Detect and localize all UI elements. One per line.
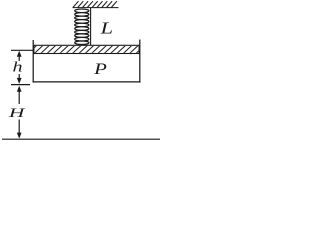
- svg-text:h: h: [12, 58, 22, 75]
- vessel right wall: [139, 40, 141, 83]
- dimension h arrow: [17, 51, 22, 84]
- dimension H arrow: [17, 86, 22, 139]
- svg-text:L: L: [99, 19, 113, 37]
- spring rod: [90, 8, 92, 46]
- svg-text:P: P: [93, 60, 107, 78]
- vessel bottom: [33, 81, 141, 83]
- dimension h extension line top: [11, 49, 33, 51]
- piston (hatched bar): [27, 45, 145, 55]
- ceiling: [73, 1, 119, 7]
- dimension h extension line bottom: [11, 84, 30, 86]
- ground line: [2, 138, 160, 140]
- vessel left wall: [32, 40, 34, 83]
- spring L coil: [75, 9, 89, 44]
- svg-text:H: H: [8, 105, 26, 120]
